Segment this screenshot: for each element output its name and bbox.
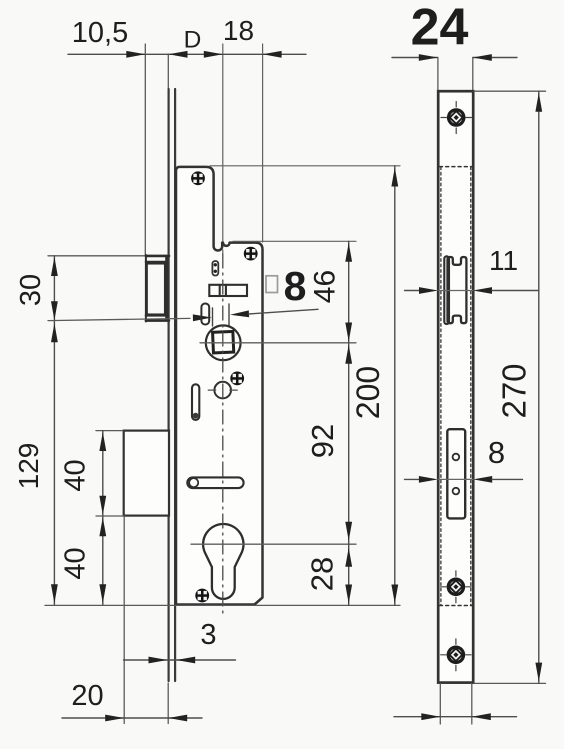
arrow tip 222.8 right xyxy=(204,51,223,58)
faceplate strip edge-on (right line) xyxy=(174,89,176,681)
svg-text:92: 92 xyxy=(305,424,340,458)
vertical slot pill xyxy=(192,384,199,420)
top screw xyxy=(441,102,471,134)
dim 40 ext top xyxy=(96,430,123,432)
slot bar with dividers xyxy=(209,285,247,296)
svg-text:200: 200 xyxy=(350,366,386,419)
svg-text:D: D xyxy=(184,27,202,54)
faceplate strip edge-on (left line) xyxy=(168,89,170,681)
deadbolt box xyxy=(124,431,169,516)
dotted horizontal bottom y=605.5 xyxy=(440,605,473,607)
dim 40 ext mid xyxy=(96,515,123,517)
light gray square right of body xyxy=(266,276,278,293)
dim 270 line x=538.8 xyxy=(538,91,540,683)
dim 129 line x=54.4 xyxy=(53,322,55,605)
ext lines plate top xyxy=(437,58,439,92)
svg-text:129: 129 xyxy=(13,443,44,490)
bottom dim line y=716.7 xyxy=(394,716,517,718)
svg-text:30: 30 xyxy=(15,274,47,306)
8-dim leader right xyxy=(249,309,319,314)
svg-text:40: 40 xyxy=(60,547,92,579)
dim 3 line y=660 xyxy=(124,659,236,661)
arrow tip 168.5 left xyxy=(169,51,188,58)
dim 46/92/28 line x=348.7 xyxy=(348,241,350,605)
dim 8 right view xyxy=(405,478,420,480)
arrow tip 262.6 left xyxy=(263,51,282,58)
dim 30 bottom extension / 8-leader left line xyxy=(48,318,190,320)
dotted horizontal top y=166.6 xyxy=(440,166,473,168)
lock body outline xyxy=(176,167,263,605)
spindle square 8mm xyxy=(213,331,234,352)
svg-text:46: 46 xyxy=(309,270,342,303)
8-dim ext ticks xyxy=(212,308,214,326)
screw right (250.7,253.6) xyxy=(244,247,258,261)
dim 270 ext bottom y=683.4 xyxy=(475,682,546,684)
svg-text:11: 11 xyxy=(489,245,518,276)
screw (202.2,595.5) xyxy=(195,589,209,603)
bottom dim ext lines xyxy=(439,684,441,725)
svg-text:20: 20 xyxy=(71,680,103,712)
spool pocket outline xyxy=(448,257,467,323)
shared bottom extension line y=605.4 xyxy=(45,604,400,606)
dim 270 ext top y=91 xyxy=(474,90,546,92)
dim 40/40 line x=102.8 xyxy=(102,431,104,605)
faceplate plate outline xyxy=(438,91,473,682)
svg-text:270: 270 xyxy=(496,363,533,418)
extension line strip-left x=168.3 xyxy=(167,54,169,90)
latch bolt xyxy=(146,255,169,322)
vertical centerline solid top part xyxy=(222,250,224,254)
arrow 8-dim left tip (211.9,317.4) xyxy=(193,314,212,321)
screw top-left (198,178.3) xyxy=(191,171,205,185)
bottom screw 2 xyxy=(441,639,471,671)
spindle follower circle xyxy=(206,325,241,360)
ext line body top y=165.8 xyxy=(210,165,400,167)
dotted vertical right x=470.8 xyxy=(470,167,472,605)
svg-text:8: 8 xyxy=(488,435,505,470)
spool pocket left bar xyxy=(444,256,449,324)
extension line latch face x=145.3 xyxy=(144,44,146,255)
dim 24 line y=57.5 xyxy=(392,57,438,59)
ext line step y=241.3 xyxy=(233,240,356,242)
ext line x=168.2 below strip xyxy=(167,683,169,724)
ext line x=124.2 below box xyxy=(123,516,125,724)
svg-text:18: 18 xyxy=(223,15,254,46)
euro cylinder hole xyxy=(203,524,243,599)
svg-text:24: 24 xyxy=(411,0,469,57)
screw (237.2,378.4) xyxy=(230,372,244,386)
svg-text:3: 3 xyxy=(200,619,216,651)
elongated cutout xyxy=(447,429,465,518)
arrow tip 145.3 right xyxy=(126,51,145,58)
tiny slot feature above xyxy=(212,261,218,276)
dim 20 line y=718.5 xyxy=(62,717,202,719)
horizontal slot pill xyxy=(187,477,243,488)
horizontal centerline spindle y=342.8 xyxy=(200,342,356,344)
svg-text:28: 28 xyxy=(305,557,340,591)
bottom screw 1 xyxy=(441,571,471,603)
dim 30 extension top y=255.8 xyxy=(48,255,144,257)
extension line body-right top x=262.6 xyxy=(262,44,264,242)
top dimension line y=54 xyxy=(68,53,306,55)
horizontal centerline cylinder y=544.2 xyxy=(191,543,356,545)
svg-text:10,5: 10,5 xyxy=(72,17,128,49)
svg-text:8: 8 xyxy=(284,263,307,309)
dim 200 line x=394.8 xyxy=(394,166,396,606)
arrow 8-dim right tip (230,314.8) xyxy=(230,310,249,318)
extension line centerline top x=222.8 xyxy=(222,44,224,250)
vertical centerline dash-dot xyxy=(222,254,224,616)
cylinder fixing hole xyxy=(214,382,231,399)
dotted vertical left x=440.9 xyxy=(440,167,442,605)
dim 30 line x=54.4 xyxy=(53,256,55,322)
svg-text:40: 40 xyxy=(60,459,92,491)
dim 11 xyxy=(405,290,420,292)
small pill feature near spindle xyxy=(201,304,209,325)
